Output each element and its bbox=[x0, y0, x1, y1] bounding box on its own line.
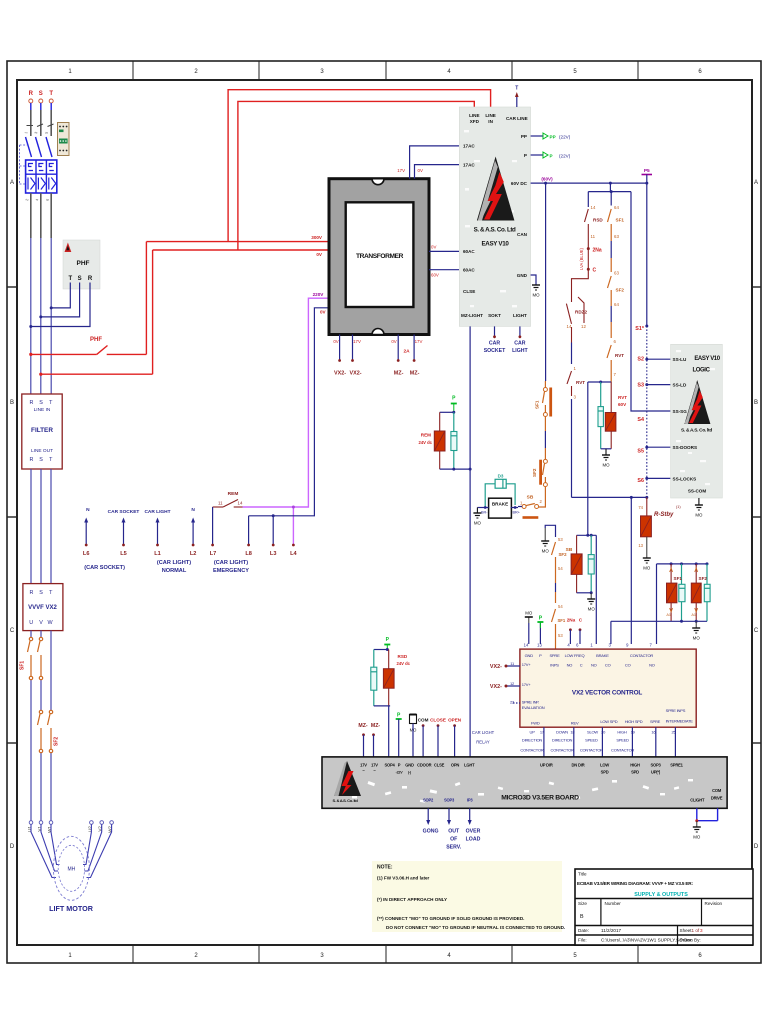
violet 220V drop to emergency light bbox=[243, 292, 331, 546]
svg-text:L7: L7 bbox=[210, 551, 217, 557]
svg-text:SPRE: SPRE bbox=[650, 719, 661, 724]
svg-text:RVT: RVT bbox=[618, 395, 627, 400]
MO and P feeding pins 14 13 bbox=[525, 611, 544, 645]
svg-text:RVT: RVT bbox=[615, 353, 624, 358]
wire SS-SG riser bbox=[631, 192, 671, 411]
svg-text:OF: OF bbox=[450, 837, 457, 843]
svg-text:CLSE: CLSE bbox=[434, 763, 445, 768]
svg-text:2Na: 2Na bbox=[567, 618, 576, 623]
svg-text:64: 64 bbox=[614, 205, 619, 210]
svg-text:P: P bbox=[524, 153, 527, 158]
svg-text:SPD: SPD bbox=[601, 770, 609, 775]
svg-text:REM: REM bbox=[421, 433, 431, 438]
filter box bbox=[22, 394, 62, 469]
wire pin3 riser bbox=[610, 621, 612, 644]
svg-text:S4: S4 bbox=[637, 417, 644, 423]
svg-text:NO: NO bbox=[567, 663, 573, 668]
relay REM 24Vdc bbox=[418, 396, 471, 471]
svg-text:220V: 220V bbox=[313, 292, 325, 297]
diode D3 bbox=[485, 474, 515, 508]
svg-text:MO: MO bbox=[602, 463, 610, 468]
note box bbox=[372, 861, 565, 932]
svg-text:SS-DOORS: SS-DOORS bbox=[673, 445, 698, 450]
svg-text:SB: SB bbox=[566, 547, 573, 553]
red bus 300V line bbox=[146, 241, 330, 243]
svg-text:2A: 2A bbox=[404, 349, 411, 355]
svg-text:17V: 17V bbox=[415, 339, 423, 344]
svg-text:DO NOT CONNECT "MO" TO GROUND: DO NOT CONNECT "MO" TO GROUND IF NEUTRAL… bbox=[386, 925, 565, 930]
svg-text:GONG: GONG bbox=[423, 829, 439, 835]
svg-text:BR+: BR+ bbox=[513, 511, 521, 515]
svg-text:(22V): (22V) bbox=[559, 153, 571, 158]
svg-text:P5: P5 bbox=[644, 168, 650, 174]
svg-text:MZ-LIGHT: MZ-LIGHT bbox=[461, 313, 483, 318]
svg-text:S: S bbox=[39, 400, 43, 406]
wires filter to vvvf bbox=[31, 469, 51, 584]
svg-text:RDZ2: RDZ2 bbox=[575, 310, 587, 315]
PHF contact bbox=[29, 337, 146, 356]
svg-text:EMERGENCY: EMERGENCY bbox=[213, 568, 249, 574]
wire riser B to LINE XFD bbox=[238, 101, 474, 250]
svg-text:File:: File: bbox=[578, 938, 587, 943]
svg-text:EASY V10: EASY V10 bbox=[481, 241, 509, 248]
svg-text:(22V): (22V) bbox=[559, 134, 571, 139]
contactor captions below VX2 bbox=[520, 738, 634, 753]
contact RDZ2 bbox=[566, 297, 587, 329]
wires vvvf down bbox=[31, 631, 51, 821]
P terminal to board bbox=[396, 713, 402, 757]
svg-text:XFD: XFD bbox=[470, 119, 480, 124]
svg-text:MO: MO bbox=[532, 293, 540, 298]
svg-text:MO: MO bbox=[542, 549, 550, 554]
svg-text:2Na: 2Na bbox=[593, 248, 602, 254]
svg-text:MO: MO bbox=[588, 607, 596, 612]
svg-text:GND: GND bbox=[525, 653, 534, 658]
logo EASY V10 bbox=[474, 157, 516, 248]
svg-text:HIGH SPD: HIGH SPD bbox=[625, 719, 643, 724]
relay RVT coil 60V bbox=[588, 381, 627, 468]
title block bbox=[575, 869, 753, 945]
wire riser A to LINE IN bbox=[228, 90, 491, 242]
svg-text:CONTACTOR: CONTACTOR bbox=[580, 748, 603, 753]
svg-text:LVA (BLUE): LVA (BLUE) bbox=[579, 247, 584, 270]
svg-text:CONTACTOR: CONTACTOR bbox=[520, 748, 543, 753]
svg-text:OPN: OPN bbox=[451, 763, 460, 768]
svg-text:SPRE1: SPRE1 bbox=[670, 763, 683, 768]
svg-text:SF2: SF2 bbox=[699, 576, 708, 581]
svg-text:D: D bbox=[754, 844, 759, 850]
svg-text:B: B bbox=[10, 400, 14, 406]
svg-text:N: N bbox=[86, 507, 90, 513]
svg-text:BRAKE: BRAKE bbox=[492, 502, 508, 507]
relay RSD 24Vdc bbox=[371, 637, 411, 757]
svg-text:PHF: PHF bbox=[77, 260, 90, 267]
VVVF VX2 box bbox=[23, 584, 63, 631]
VX2 left input wires bbox=[490, 664, 520, 703]
svg-text:54: 54 bbox=[558, 604, 563, 609]
svg-text:MZ-: MZ- bbox=[410, 371, 420, 377]
svg-text:17V: 17V bbox=[353, 339, 361, 344]
svg-text:CLIGHT: CLIGHT bbox=[690, 798, 705, 803]
svg-text:17V+: 17V+ bbox=[522, 682, 532, 687]
svg-text:NORMAL: NORMAL bbox=[162, 568, 187, 574]
EASY V10 board bbox=[459, 107, 530, 326]
svg-text:SS-LU: SS-LU bbox=[673, 357, 687, 362]
svg-text:(1): (1) bbox=[676, 505, 681, 509]
svg-text:SF1: SF1 bbox=[616, 218, 625, 223]
svg-text:A: A bbox=[754, 180, 758, 186]
svg-text:LOGIC: LOGIC bbox=[693, 368, 711, 374]
svg-text:BR-: BR- bbox=[481, 511, 488, 515]
contact RSD 14-11 bbox=[585, 205, 604, 249]
svg-text:11/2/2017: 11/2/2017 bbox=[601, 928, 622, 933]
svg-text:ECBAB V3.5/ER WIRING DIAGRAM:: ECBAB V3.5/ER WIRING DIAGRAM: VVVF + MZ … bbox=[577, 881, 693, 886]
zone letters bbox=[10, 180, 759, 850]
relay R-Stby bbox=[638, 497, 681, 570]
svg-text:L2: L2 bbox=[190, 551, 197, 557]
svg-text:CLSE: CLSE bbox=[463, 289, 475, 294]
transformer bottom pins bbox=[333, 335, 422, 377]
svg-text:PP: PP bbox=[550, 134, 556, 139]
svg-text:MICRO3D V3.5ER BOARD: MICRO3D V3.5ER BOARD bbox=[501, 795, 579, 802]
svg-text:U: U bbox=[29, 620, 33, 626]
svg-text:0V: 0V bbox=[320, 310, 327, 315]
svg-text:A1: A1 bbox=[691, 613, 696, 617]
svg-text:D3: D3 bbox=[498, 474, 504, 479]
svg-text:SOKT: SOKT bbox=[488, 313, 501, 318]
svg-text:R: R bbox=[88, 276, 93, 282]
svg-text:VX2 VECTOR CONTROL: VX2 VECTOR CONTROL bbox=[572, 690, 642, 697]
svg-text:DRIVE: DRIVE bbox=[711, 796, 723, 801]
svg-text:CDOOR: CDOOR bbox=[417, 763, 431, 768]
svg-text:CONTACTOR: CONTACTOR bbox=[630, 653, 653, 658]
svg-text:FILTER: FILTER bbox=[31, 427, 53, 434]
svg-text:-22V: -22V bbox=[396, 771, 404, 775]
svg-text:IP3: IP3 bbox=[467, 798, 473, 803]
svg-text:BRAKE: BRAKE bbox=[596, 653, 609, 658]
contact SF1 main bbox=[535, 381, 553, 417]
svg-text:74: 74 bbox=[638, 505, 643, 510]
svg-text:SPD: SPD bbox=[631, 770, 639, 775]
svg-text:SF2: SF2 bbox=[616, 288, 625, 293]
svg-text:11: 11 bbox=[591, 234, 596, 239]
wire RVT3 down to relay rail bbox=[571, 399, 573, 497]
svg-text:SOP2: SOP2 bbox=[423, 798, 434, 803]
svg-text:LGHT: LGHT bbox=[464, 763, 475, 768]
svg-text:OPEN: OPEN bbox=[448, 718, 462, 723]
node C bbox=[587, 268, 590, 271]
S1..S6 dotted strip bbox=[646, 326, 648, 497]
svg-text:V: V bbox=[39, 620, 43, 626]
PHF phase monitor box bbox=[63, 240, 100, 289]
svg-text:OUT: OUT bbox=[448, 829, 460, 835]
svg-text:Number: Number bbox=[605, 901, 622, 906]
svg-text:CONTACTOR: CONTACTOR bbox=[611, 748, 634, 753]
wire rail to VX2 pin9 bbox=[630, 497, 632, 644]
zone numbers top bbox=[68, 69, 702, 75]
svg-text:SF1: SF1 bbox=[558, 618, 566, 623]
svg-text:S: S bbox=[39, 91, 43, 97]
wire coil feed down to SB rail bbox=[587, 382, 589, 535]
svg-text:S. & A.S. Co. Ltd: S. & A.S. Co. Ltd bbox=[474, 227, 516, 234]
zone row ticks left bbox=[7, 287, 17, 743]
svg-text:LINE: LINE bbox=[469, 113, 479, 118]
GND to MO ground bbox=[531, 275, 541, 298]
svg-text:GND: GND bbox=[405, 763, 414, 768]
relay SB coil bbox=[566, 534, 597, 644]
wires VX2 bottom to MICRO board bbox=[544, 727, 676, 757]
svg-text:TRANSFORMER: TRANSFORMER bbox=[356, 253, 404, 260]
svg-text:CAR: CAR bbox=[489, 341, 500, 347]
transformer top pins 17V 0V bbox=[397, 146, 462, 179]
wire S phase to 0V bus bbox=[39, 250, 152, 376]
svg-text:SOP4: SOP4 bbox=[384, 763, 395, 768]
svg-text:LOW SPD: LOW SPD bbox=[600, 719, 617, 724]
svg-text:64: 64 bbox=[614, 302, 619, 307]
svg-text:VX2-: VX2- bbox=[334, 371, 346, 377]
svg-text:A1: A1 bbox=[666, 613, 671, 617]
svg-text:SF1: SF1 bbox=[535, 400, 540, 409]
svg-text:3: 3 bbox=[700, 928, 703, 933]
VX2 top pin numbers bbox=[524, 643, 653, 648]
svg-text:17V: 17V bbox=[397, 168, 405, 173]
svg-text:VX2-: VX2- bbox=[490, 664, 502, 670]
svg-text:R: R bbox=[30, 400, 34, 406]
svg-text:CLOSE: CLOSE bbox=[430, 718, 446, 723]
wire RDZ2 to RVT contact bbox=[571, 327, 573, 364]
svg-text:C: C bbox=[580, 663, 583, 668]
svg-text:MO: MO bbox=[474, 521, 482, 526]
svg-text:L1: L1 bbox=[154, 551, 161, 557]
svg-text:12: 12 bbox=[581, 324, 586, 329]
SOKT / LIGHT stubs bbox=[484, 326, 529, 354]
svg-text:(CAR LIGHT): (CAR LIGHT) bbox=[157, 560, 191, 566]
svg-text:S: S bbox=[39, 457, 43, 463]
svg-text:R: R bbox=[29, 91, 34, 97]
breaker linkage dashed bbox=[20, 145, 29, 184]
svg-text:SPRE: SPRE bbox=[549, 653, 560, 658]
svg-text:SOCKET: SOCKET bbox=[484, 348, 506, 354]
svg-text:63: 63 bbox=[614, 271, 619, 276]
svg-text:Revision: Revision bbox=[705, 901, 723, 906]
P5 terminal bbox=[642, 168, 653, 183]
contacts SF1/SF2 column bbox=[608, 205, 625, 338]
svg-text:LOW: LOW bbox=[600, 763, 609, 768]
svg-text:T: T bbox=[49, 91, 53, 97]
svg-text:SOP3: SOP3 bbox=[650, 763, 661, 768]
svg-text:SPEED: SPEED bbox=[616, 738, 629, 743]
lift motor M bbox=[27, 821, 113, 913]
contactor SF2 contacts bbox=[38, 710, 60, 752]
svg-text:EVALUATION: EVALUATION bbox=[522, 705, 545, 710]
wires breaker to filter bbox=[31, 193, 51, 394]
breaker Q1 blades bbox=[26, 137, 53, 157]
svg-text:60AC: 60AC bbox=[463, 249, 475, 254]
svg-text:(CAR LIGHT): (CAR LIGHT) bbox=[214, 560, 248, 566]
svg-text:Sheet: Sheet bbox=[680, 928, 693, 933]
svg-text:(60V): (60V) bbox=[541, 177, 553, 182]
svg-text:LINE OUT: LINE OUT bbox=[31, 448, 53, 454]
svg-text:A: A bbox=[10, 180, 14, 186]
P5 riser solid to S1 bbox=[646, 183, 648, 326]
svg-text:L4: L4 bbox=[290, 551, 297, 557]
svg-text:53: 53 bbox=[558, 537, 563, 542]
MZ- terminals to 17V pins bbox=[358, 723, 380, 757]
contact RVT 6-7 bbox=[607, 339, 624, 382]
svg-text:60V: 60V bbox=[618, 402, 627, 407]
car line terminal T bbox=[515, 86, 519, 108]
svg-text:RELAY: RELAY bbox=[476, 740, 490, 745]
svg-text:17AC: 17AC bbox=[463, 144, 475, 149]
PP output arrow bbox=[531, 133, 571, 139]
svg-text:GND: GND bbox=[517, 273, 528, 278]
PHF pin wires to mains bbox=[31, 283, 90, 327]
svg-text:CO: CO bbox=[625, 663, 631, 668]
transformer T1 bbox=[329, 179, 429, 335]
contact SB bbox=[518, 495, 543, 519]
svg-text:MO: MO bbox=[643, 566, 651, 571]
svg-text:DIRECTION: DIRECTION bbox=[522, 738, 543, 743]
svg-text:11: 11 bbox=[218, 501, 223, 506]
svg-text:CAR LIGHT: CAR LIGHT bbox=[144, 509, 170, 515]
svg-text:P: P bbox=[550, 153, 553, 158]
MO box icon to GND pin bbox=[410, 715, 418, 757]
svg-text:REM: REM bbox=[228, 491, 239, 497]
svg-text:NO: NO bbox=[649, 663, 655, 668]
svg-text:CO: CO bbox=[605, 663, 611, 668]
svg-text:SS-COM: SS-COM bbox=[688, 489, 707, 494]
DIN device icon bbox=[58, 123, 70, 156]
P output arrow bbox=[531, 152, 571, 158]
MICRO3D V3.5ER BOARD bbox=[322, 757, 727, 808]
zone row ticks right bbox=[752, 287, 761, 743]
svg-text:MZ-: MZ- bbox=[394, 371, 404, 377]
wire 2Na to C bbox=[587, 249, 589, 270]
svg-text:LIFT MOTOR: LIFT MOTOR bbox=[49, 904, 94, 913]
svg-text:T: T bbox=[515, 86, 518, 92]
svg-text:S: S bbox=[78, 276, 82, 282]
svg-text:COM: COM bbox=[418, 718, 429, 723]
svg-text:60V: 60V bbox=[431, 273, 439, 278]
VX2 vector control board bbox=[510, 649, 696, 727]
red bus 0V line bbox=[153, 249, 330, 251]
svg-text:0V: 0V bbox=[391, 339, 396, 344]
car socket / car light terminal row bbox=[83, 507, 298, 574]
svg-text:S5: S5 bbox=[637, 449, 644, 455]
MZ-LIGHT long wire down to LGHT bbox=[469, 326, 471, 757]
svg-text:LIGHT: LIGHT bbox=[513, 313, 527, 318]
svg-text:RVT: RVT bbox=[576, 380, 585, 385]
2Na C terminals to pins 4 6 bbox=[567, 618, 583, 645]
zone column ticks top bbox=[133, 61, 638, 80]
lower chain SF2/SF1 to SPRE bbox=[541, 525, 567, 649]
svg-text:N: N bbox=[191, 507, 195, 513]
svg-text:VX2-: VX2- bbox=[490, 684, 502, 690]
safety chain sub-loop bbox=[588, 183, 631, 207]
svg-text:SS-SG: SS-SG bbox=[673, 409, 688, 414]
zone column ticks bottom bbox=[133, 945, 638, 963]
svg-text:LIGHT: LIGHT bbox=[512, 348, 528, 354]
REM contact 11-14 bbox=[211, 491, 243, 546]
svg-text:R: R bbox=[30, 457, 34, 463]
svg-text:SPRE INP.: SPRE INP. bbox=[522, 700, 540, 705]
svg-text:REV: REV bbox=[571, 721, 579, 726]
svg-text:14: 14 bbox=[591, 205, 596, 210]
svg-text:VVVF VX2: VVVF VX2 bbox=[28, 605, 57, 611]
svg-text:C: C bbox=[10, 628, 15, 634]
svg-text:L3: L3 bbox=[270, 551, 277, 557]
relays SF1 SF2 coils bbox=[611, 562, 710, 644]
svg-text:DIRECTION: DIRECTION bbox=[552, 738, 573, 743]
svg-text:L5: L5 bbox=[120, 551, 127, 557]
svg-text:300V: 300V bbox=[311, 235, 323, 240]
fuse tick marks bbox=[27, 124, 54, 127]
svg-text:B: B bbox=[580, 914, 584, 920]
VX2 bottom pin numbers bbox=[530, 729, 677, 734]
relay feed rail bbox=[572, 496, 649, 499]
svg-text:17AC: 17AC bbox=[463, 162, 475, 167]
svg-text:17V+: 17V+ bbox=[522, 662, 532, 667]
svg-text:CAR LINE: CAR LINE bbox=[506, 116, 528, 121]
svg-text:R: R bbox=[30, 590, 34, 596]
breaker terminal numbers bbox=[24, 132, 50, 202]
svg-text:DN DIR: DN DIR bbox=[572, 763, 585, 768]
svg-text:SF1: SF1 bbox=[674, 576, 683, 581]
svg-text:MO: MO bbox=[525, 611, 533, 616]
svg-text:HIGH: HIGH bbox=[617, 729, 627, 734]
svg-text:RSD: RSD bbox=[398, 654, 408, 659]
svg-text:R-Stby: R-Stby bbox=[654, 512, 674, 518]
svg-text:S6: S6 bbox=[637, 478, 644, 484]
svg-text:17V: 17V bbox=[360, 763, 367, 768]
svg-text:INPS: INPS bbox=[550, 663, 559, 668]
svg-text:MO: MO bbox=[695, 513, 703, 518]
svg-text:14: 14 bbox=[524, 643, 529, 648]
contact SF2 main bbox=[532, 459, 547, 486]
clight/com drive ground bbox=[693, 808, 718, 839]
svg-text:MZ-: MZ- bbox=[358, 723, 367, 729]
svg-text:MO: MO bbox=[693, 835, 701, 840]
svg-text:UP: UP bbox=[530, 729, 536, 734]
wires S-row to logic block bbox=[647, 359, 671, 478]
svg-text:0V: 0V bbox=[333, 339, 338, 344]
svg-text:VX2-: VX2- bbox=[350, 371, 362, 377]
svg-text:Title: Title bbox=[578, 872, 587, 877]
svg-text:Date:: Date: bbox=[578, 928, 589, 933]
svg-text:S2: S2 bbox=[637, 357, 644, 363]
wire chain to SB contact bbox=[539, 487, 546, 507]
svg-text:HIGH: HIGH bbox=[630, 763, 640, 768]
brake power chain from 60VDC bbox=[545, 183, 547, 381]
svg-text:L6: L6 bbox=[83, 551, 90, 557]
svg-text:0V: 0V bbox=[418, 168, 423, 173]
svg-text:1 of: 1 of bbox=[692, 928, 700, 933]
svg-text:SUPPLY & OUTPUTS: SUPPLY & OUTPUTS bbox=[634, 892, 688, 898]
svg-text:SPRE INPS: SPRE INPS bbox=[666, 708, 686, 713]
svg-text:14: 14 bbox=[238, 501, 243, 506]
svg-text:SF1: SF1 bbox=[20, 661, 26, 670]
svg-text:T: T bbox=[68, 276, 72, 282]
svg-text:CAR: CAR bbox=[514, 341, 525, 347]
navy 0V drop to normal light bbox=[247, 308, 330, 547]
svg-text:DOWN: DOWN bbox=[556, 729, 568, 734]
svg-text:NO: NO bbox=[591, 663, 597, 668]
zone numbers bottom bbox=[68, 953, 702, 959]
svg-text:UP(*): UP(*) bbox=[651, 770, 661, 775]
svg-text:PHF: PHF bbox=[90, 337, 102, 343]
svg-text:54: 54 bbox=[558, 566, 563, 571]
svg-text:0V: 0V bbox=[316, 252, 323, 257]
